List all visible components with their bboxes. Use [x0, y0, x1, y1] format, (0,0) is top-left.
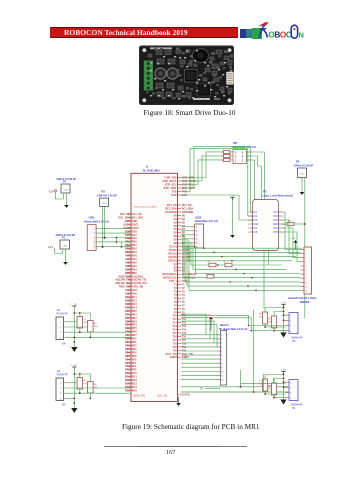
ground: [176, 403, 181, 406]
connector RELAY PCHeaderMale 2.54 1x13: [220, 331, 226, 386]
U1 pin ICSP_WCLK: [178, 180, 182, 182]
wire bus into B1: [241, 382, 286, 384]
ground big: [280, 333, 286, 338]
wire bus net 11: [189, 289, 301, 291]
wire bus vert 9: [184, 250, 186, 282]
resistor R2 SPI series: [224, 154, 231, 157]
svg-text:GND3: GND3: [182, 356, 189, 359]
wire power rail down: [73, 306, 75, 347]
svg-text:E4: E4: [57, 369, 61, 373]
resistor R1 SPI series: [224, 150, 231, 153]
junction dots on bus: [203, 247, 205, 249]
svg-text:DRIVER: DRIVER: [300, 301, 310, 304]
wire relay row: [181, 366, 218, 368]
wire HV4 to driver: [282, 232, 301, 262]
svg-text:PC Header Male 2.54 1x13: PC Header Male 2.54 1x13: [219, 328, 248, 331]
U1 pin DAD: [178, 194, 182, 196]
wire relay row: [181, 354, 218, 356]
P5 pin LV4: [250, 227, 253, 229]
svg-text:T4: T4: [83, 319, 86, 321]
svg-text:1_TB: 1_TB: [290, 238, 296, 240]
svg-text:HV4: HV4: [273, 228, 278, 230]
power 1_TB: [281, 302, 287, 307]
op-amp U1 main MCU dsPIC: [131, 173, 178, 401]
connector USB Header-Male-2.54_1x5: [87, 225, 96, 251]
wire relay row: [181, 362, 218, 364]
DRIVER pin 5: [301, 265, 305, 267]
svg-text:1_TB: 1_TB: [71, 365, 77, 367]
power 1_TB: [71, 304, 77, 309]
DRIVER pin 7: [301, 273, 305, 275]
P5 pin LV5: [250, 231, 253, 233]
junction dots USB bus: [104, 237, 106, 239]
wire relay row: [181, 338, 218, 340]
connector P4 2JM-H-S-2.00-2P: [298, 168, 307, 178]
wire ICSP bus 6: [181, 195, 253, 220]
svg-text:R: R: [221, 152, 223, 154]
svg-text:+TS: +TS: [102, 203, 107, 205]
svg-text:Logic_Level Bidirectional: Logic_Level Bidirectional: [263, 195, 294, 198]
connector DRIVER HeaderPins 1x10: [304, 247, 312, 294]
svg-text:+TS: +TS: [63, 246, 68, 248]
wire bus net 2: [185, 251, 301, 253]
P5 pin HV1: [279, 211, 282, 213]
transistor NC: [77, 378, 83, 390]
ground: [230, 235, 235, 238]
wire long bottom net 2 right: [181, 386, 288, 388]
wire bus net 5: [191, 264, 282, 266]
P5 pin LV2: [250, 215, 253, 217]
svg-text:T7: T7: [259, 381, 262, 383]
svg-text:1: 1: [248, 212, 250, 214]
svg-text:6: 6: [248, 232, 250, 234]
wire bus vert 11: [188, 254, 190, 290]
wire relay row: [181, 342, 218, 344]
svg-text:1_TB: 1_TB: [71, 304, 77, 306]
U1 pin ICSP_VDAT: [178, 187, 182, 189]
wire power rail down: [73, 367, 75, 408]
svg-text:P3: P3: [102, 190, 106, 194]
junction: [102, 246, 104, 248]
wire bus vert 10: [186, 252, 188, 286]
svg-text:1_TB: 1_TB: [281, 369, 287, 371]
wire bus net 3: [187, 256, 296, 258]
svg-text:B4: B4: [62, 403, 66, 407]
wire bus into B2 pin3: [181, 315, 286, 325]
PCB board photo: [139, 46, 234, 106]
ground: [63, 262, 68, 265]
P5 pin HV2: [279, 215, 282, 217]
wire relay row: [181, 334, 218, 336]
resistor R3 SPI series: [224, 158, 231, 161]
wire SPI pin6 right: [246, 152, 265, 200]
power 1_TB: [230, 195, 236, 200]
U1 right pin column: [178, 204, 182, 206]
ground below U1: [178, 397, 180, 403]
svg-text:R6: R6: [268, 319, 272, 321]
P5 pin LV3: [250, 219, 253, 221]
wire P1b pin2 to ground: [65, 249, 67, 262]
wire ICSP bus 4 over SPI to logic level: [181, 146, 253, 212]
logo green square: [252, 28, 262, 39]
svg-text:R: R: [221, 160, 223, 162]
wire GND to driver: [282, 228, 301, 258]
wire HV2 through R9: [282, 223, 288, 225]
wire bus vert 4: [188, 240, 190, 261]
svg-text:P5: P5: [263, 190, 267, 194]
header title text: [64, 28, 244, 38]
DRIVER pin 10: [301, 285, 305, 287]
svg-text:SRD4+4P: SRD4+4P: [57, 374, 69, 377]
logo blue square: [240, 29, 247, 38]
wire 12V to P1: [55, 248, 63, 254]
wire vertical right low 1: [253, 310, 255, 392]
wire ICSP bus 5 over SPI: [181, 149, 253, 216]
wire bus net 4: [189, 260, 292, 262]
ground: [64, 205, 69, 208]
svg-text:12V: 12V: [48, 245, 53, 249]
svg-text:74D: 74D: [83, 322, 87, 324]
P5 pin HV5: [279, 231, 282, 233]
P5 pin GND: [279, 223, 282, 225]
wire relay row: [181, 370, 218, 372]
DRIVER pin 11: [301, 290, 305, 292]
wire pins 1-2 to rail: [284, 314, 286, 316]
connector E4 SRD4+4P: [56, 378, 64, 401]
wire 3V to relay: [205, 388, 220, 390]
wire relay row: [181, 378, 218, 380]
svg-text:P4: P4: [296, 160, 300, 164]
wire vertical right low 2: [240, 370, 242, 387]
wire logic-level bottom vertical: [263, 249, 265, 309]
svg-text:M_SUB_MIO: M_SUB_MIO: [143, 169, 160, 173]
svg-text:GND3: GND3: [170, 356, 177, 359]
ground big: [71, 408, 77, 413]
svg-text:NC: NC: [83, 380, 87, 382]
header red banner: [50, 27, 238, 38]
svg-text:RUSH-4P: RUSH-4P: [57, 313, 68, 316]
wire bus vert 1: [182, 234, 184, 248]
wire power rail down: [283, 305, 285, 333]
wire USB vertical jogs: [116, 238, 118, 243]
svg-text:RELAY: RELAY: [220, 323, 229, 327]
svg-text:8: 8: [282, 216, 284, 218]
svg-text:RG5: RG5: [125, 389, 131, 392]
svg-text:USB: USB: [89, 216, 95, 220]
wire bus vert 7: [195, 246, 197, 273]
svg-text:N4: N4: [62, 342, 66, 346]
page number: [166, 449, 175, 456]
svg-text:(CAL_TX): (CAL_TX): [157, 394, 167, 397]
svg-text:R5: R5: [259, 314, 263, 316]
svg-text:2JM-H-S-2.00-2P: 2JM-H-S-2.00-2P: [57, 178, 77, 181]
DRIVER pin 2: [301, 253, 305, 255]
svg-text:RG5: RG5: [132, 389, 138, 392]
svg-text:R: R: [221, 156, 223, 158]
wire resistor to SPI: [230, 159, 233, 161]
svg-text:GND(MP8): GND(MP8): [179, 395, 191, 397]
wire P3 pin2 down: [104, 206, 106, 238]
svg-text:74D: 74D: [259, 317, 263, 319]
power arrow: [294, 240, 298, 243]
wire bus vert 3: [186, 238, 188, 256]
wires cluster rows: [65, 321, 77, 323]
wire relay corner jogs: [181, 314, 206, 335]
svg-text:HV5: HV5: [273, 232, 278, 234]
U1 pin ICSP_VDD: [178, 177, 182, 179]
svg-text:SPI: SPI: [233, 141, 238, 145]
DRIVER pin 9: [301, 281, 305, 283]
wire bus net 10: [187, 285, 301, 287]
DRIVER pin 8: [301, 277, 305, 279]
resistor R8: [272, 383, 277, 395]
wire bus net 1: [183, 247, 302, 249]
P5 pin HV4: [279, 227, 282, 229]
wire SPI pin4 down: [246, 156, 262, 200]
svg-text:3V: 3V: [200, 387, 203, 391]
wire 1_TB down to ground: [232, 200, 234, 235]
svg-text:5: 5: [248, 228, 250, 230]
wire P1 pin2 to ground: [66, 193, 68, 205]
wire HV3 to driver: [282, 220, 301, 254]
svg-text:DAD: DAD: [171, 194, 176, 197]
wire power rail down: [283, 372, 285, 400]
wire U302 bus to U1: [181, 226, 192, 228]
resistor R5: [263, 312, 268, 324]
wire SPI pin2 down: [246, 160, 255, 200]
power 1_TB: [281, 369, 287, 374]
svg-text:GND: GND: [273, 224, 278, 226]
svg-text:U302: U302: [195, 215, 202, 219]
svg-text:HeaderPins1x10F-1.25mm: HeaderPins1x10F-1.25mm: [288, 298, 316, 300]
wire P3 pin1 down: [102, 206, 104, 247]
resistor R6: [272, 316, 277, 328]
svg-text:1_TB: 1_TB: [230, 195, 236, 197]
wire ICSP bus 3: [181, 160, 224, 185]
wires cluster right: [265, 308, 283, 313]
wire B1 resistor links: [263, 374, 265, 392]
connector B2 SMD4+4P: [289, 313, 298, 334]
wire ICSP bus 2: [181, 156, 224, 181]
svg-text:74D: 74D: [94, 326, 98, 328]
wire P4 to ground: [301, 178, 303, 193]
svg-text:SMD4+4P: SMD4+4P: [291, 336, 303, 339]
wire long bottom net 1 right: [181, 391, 297, 393]
wire bus net 9: [185, 281, 301, 283]
resistor R9 after HV2: [287, 222, 294, 225]
op-amp P5 Logic_Level Bidirectional: [253, 200, 279, 251]
svg-text:HV3: HV3: [273, 220, 278, 222]
wire bus vert 6: [192, 244, 194, 269]
wire pins 1-2 to rail: [284, 381, 286, 383]
wire +2V to P1: [56, 192, 64, 199]
svg-text:B1: B1: [293, 407, 297, 410]
resistor T7: [263, 379, 268, 391]
wire HV1 to driver: [282, 212, 301, 250]
wire P4 net down right: [304, 178, 306, 319]
footer rule: [104, 445, 247, 448]
wires cluster rows: [65, 382, 77, 384]
svg-text:2JM-H-S-2.00-2P: 2JM-H-S-2.00-2P: [294, 164, 314, 167]
ground: [300, 192, 305, 195]
wire ICSP bus 1: [181, 152, 224, 178]
svg-text:R4: R4: [94, 323, 98, 325]
logo running figure: [259, 22, 269, 38]
wire bus net 6: [193, 268, 286, 270]
connector B1 SMD4+4P: [289, 380, 298, 401]
svg-text:2JM-H-S-2.00-2P: 2JM-H-S-2.00-2P: [97, 195, 117, 198]
svg-text:HeaderMale-2.54_1x6: HeaderMale-2.54_1x6: [195, 220, 219, 223]
wire resistor tops: [74, 313, 90, 321]
wire bus net 7: [196, 273, 301, 275]
logo teal square: [246, 29, 252, 38]
U1 pin ICSP_SCL: [178, 184, 182, 186]
connector P1 12V 2JM-H-S-2.00-2P: [60, 240, 70, 249]
wire relay row: [181, 374, 218, 376]
wire relay row: [181, 350, 218, 352]
wire bus vert 5: [190, 242, 192, 265]
svg-text:HV2: HV2: [273, 216, 278, 218]
wire bus vert 2: [184, 236, 186, 252]
svg-text:(DCAL_RX): (DCAL_RX): [133, 394, 145, 397]
ground big: [71, 347, 77, 352]
connector U302 HeaderMale-2.54_1x6: [195, 224, 204, 248]
svg-text:HV1: HV1: [273, 212, 278, 214]
transistor T4: [77, 317, 83, 329]
connector P3 2JM-H-S-2.00-2P: [100, 198, 109, 206]
svg-text:GND: GND: [253, 224, 258, 226]
svg-text:SMD4+4P: SMD4+4P: [291, 403, 303, 406]
connector SPI Header-Male-CON_2x3: [233, 150, 247, 164]
svg-text:2JM-H-S-2.00-2P: 2JM-H-S-2.00-2P: [56, 234, 76, 237]
U1 pin TVB: [178, 191, 182, 193]
power 1_TB: [71, 365, 77, 370]
svg-text:E1: E1: [57, 308, 61, 312]
wire resistor tops: [74, 374, 90, 382]
connector E1 RUSH-4P: [56, 317, 64, 340]
svg-text:74D: 74D: [268, 322, 272, 324]
svg-text:DAD: DAD: [182, 194, 187, 197]
svg-text:74C: 74C: [83, 383, 87, 385]
DRIVER pin 4: [301, 261, 305, 263]
svg-text:74D: 74D: [268, 389, 272, 391]
wire resistor to SPI: [230, 151, 233, 153]
wire bus vert 8: [182, 248, 184, 277]
svg-text:+2V: +2V: [49, 189, 54, 193]
caption figure 18: [144, 108, 274, 117]
svg-text:Header-Male-2.54_1x5: Header-Male-2.54_1x5: [84, 220, 110, 223]
resistor R10: [209, 263, 216, 267]
connector P1 2JM-H-S-2.00-2P: [61, 184, 70, 193]
resistor R4: [88, 321, 94, 333]
svg-text:74D: 74D: [259, 384, 263, 386]
power arrow: [209, 317, 213, 320]
logo capsule O: [291, 25, 297, 38]
DRIVER pin 6: [301, 269, 305, 271]
resistor R8: [88, 382, 94, 394]
svg-text:B2: B2: [293, 340, 297, 343]
svg-text:R8: R8: [94, 384, 98, 386]
wire bus into B2 pin4: [181, 318, 286, 331]
resistor R12: [207, 275, 214, 279]
P5 pin HV3: [279, 219, 282, 221]
DRIVER pin 3: [301, 257, 305, 259]
P5 pin LV1: [250, 211, 253, 213]
svg-text:+TS: +TS: [64, 190, 69, 192]
resistor R11: [225, 263, 232, 267]
svg-text:4: 4: [248, 224, 250, 226]
svg-text:NoDevelopersDualMotor: NoDevelopersDualMotor: [134, 205, 158, 208]
wires cluster right: [265, 375, 283, 380]
U1 left pin column: [128, 213, 132, 215]
DRIVER pin 1: [301, 249, 305, 251]
caption figure 19: [122, 423, 292, 431]
wire resistor to SPI: [230, 155, 233, 157]
P5 pin GND: [250, 223, 253, 225]
wire relay row: [181, 358, 218, 360]
wire bus net 8: [183, 277, 301, 279]
svg-text:1_TB: 1_TB: [281, 302, 287, 304]
wire relay row: [181, 346, 218, 348]
svg-text:+TS: +TS: [300, 174, 305, 176]
ground big: [280, 400, 286, 405]
